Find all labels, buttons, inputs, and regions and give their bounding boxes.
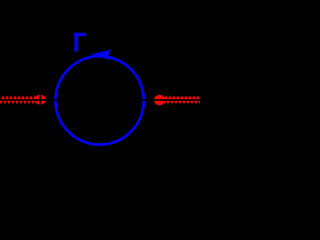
wire: right branch cut (red wavy line from branch point to edge) xyxy=(163,97,200,102)
wire: real axis (black line drawn over elements) xyxy=(0,99,200,101)
wire: vertical tick over left branch point xyxy=(39,94,41,107)
arrowhead on contour (pointing left, counterclockwise) xyxy=(90,50,111,60)
label Γ xyxy=(74,33,86,52)
wire: left branch cut (red wavy line from edge to branch point) xyxy=(0,97,37,103)
node: left branch point (red dot) xyxy=(35,95,46,105)
node: right branch point (red dot) xyxy=(154,95,165,105)
contour circle Γ (blue) xyxy=(55,56,143,144)
